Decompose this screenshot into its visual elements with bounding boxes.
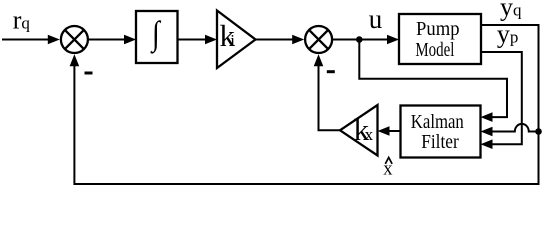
wire y_q into Kalman Filter with crossover hop [481, 124, 539, 136]
svg-text:Kalman: Kalman [411, 111, 464, 133]
wire integrator to gain k_i [178, 35, 218, 45]
node y_p output label [497, 19, 519, 48]
wire Kalman Filter to gain k_x [378, 126, 401, 136]
svg-text:Model: Model [415, 39, 454, 61]
minus sign at S1 feedback input [85, 72, 93, 75]
wire S2 to Pump Model [332, 35, 399, 45]
svg-text:Pump: Pump [416, 18, 460, 40]
svg-text:x: x [365, 125, 374, 144]
wire u feedback into Kalman Filter [359, 40, 507, 122]
node x_hat label [383, 157, 393, 179]
gain block k_x (triangle) [340, 105, 378, 156]
node u junction dot [356, 36, 363, 43]
wire y_p output into Kalman Filter [481, 52, 522, 149]
svg-text:i: i [230, 31, 235, 50]
minus sign at S2 feedback input [327, 70, 335, 73]
wire k_x output to S2 [314, 54, 340, 130]
wire input r_q to summing junction S1 [2, 35, 60, 45]
wire S1 to integrator [89, 35, 137, 45]
summing junction S1 [61, 26, 88, 53]
node u label [369, 4, 383, 34]
svg-text:Filter: Filter [421, 131, 459, 153]
svg-text:yq: yq [500, 0, 522, 21]
integrator block [136, 11, 178, 63]
svg-text:u: u [369, 4, 383, 34]
node r_q input label [13, 5, 31, 34]
node y_q junction dot [535, 128, 542, 135]
summing junction S2 [305, 26, 332, 53]
wire k_i to summing junction S2 [256, 35, 305, 45]
Kalman Filter block [401, 106, 481, 158]
gain block k_i (triangle) [217, 11, 256, 69]
wire y_q output feedback loop to S1 [70, 25, 539, 184]
node y_q output label [500, 0, 522, 21]
Pump Model block [399, 14, 481, 64]
